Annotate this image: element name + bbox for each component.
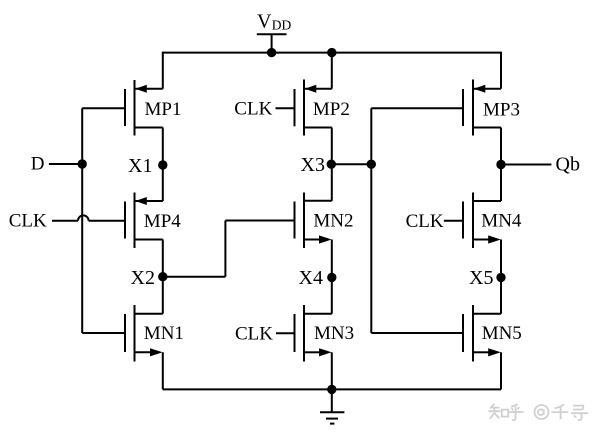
svg-text:MP4: MP4 [144,211,181,232]
svg-text:X2: X2 [131,267,155,289]
junction X3 right [367,160,376,169]
svg-text:MN4: MN4 [481,211,522,232]
transistor MN1 [82,305,163,362]
transistor MP2 [295,80,332,136]
wire rail to MP2 source [331,52,333,89]
wire rail to MP3 source [500,52,502,89]
svg-text:MP3: MP3 [483,100,520,121]
svg-text:X1: X1 [128,155,152,177]
node X5 [496,273,505,282]
ground [320,389,344,423]
svg-text:Qb: Qb [556,154,580,176]
wire CLK to MP2 gate [276,107,295,109]
svg-text:CLK: CLK [406,211,444,232]
transistor MN2 [295,193,332,249]
wire Qb output [501,164,551,166]
svg-text:X3: X3 [301,154,325,176]
wire D vertical (gates of MP1, MN1) [81,108,83,333]
input D wire [49,163,82,165]
wire X3 horizontal [331,163,371,165]
wire MN1 source to ground rail [162,352,164,389]
VDD label [257,11,292,33]
svg-text:CLK: CLK [235,324,273,345]
svg-text:X5: X5 [469,267,493,289]
wire MP3 drain to MN4 drain (node Qb segment) [500,128,502,202]
transistor MP3 [371,80,501,136]
wire MP1 drain to MP4 source (node X1 segment) [162,128,164,202]
svg-text:MN1: MN1 [144,323,184,344]
wire VDD rail [163,52,501,54]
wire X2 to MN2 gate [163,221,295,277]
wire CLK to MN4 gate [444,220,463,222]
svg-text:D: D [31,153,45,174]
wire MN2 source to MN3 drain (node X4 segment) [331,240,333,314]
wire X3 net to MN5 gate [371,332,463,334]
transistor MP1 [82,80,163,136]
VDD supply symbol [257,34,287,52]
junction ground rail [327,385,336,394]
node X2 [158,272,167,281]
transistor MN5 [463,305,501,362]
wire MN3 source to ground rail [331,352,333,389]
transistor MN3 [295,305,332,362]
svg-text:MN3: MN3 [314,323,354,344]
svg-text:V: V [257,11,272,33]
svg-text:X4: X4 [299,267,323,289]
svg-text:MP2: MP2 [313,99,350,120]
wire CLK to MP4 gate with hop over D line [52,215,125,220]
wire MN5 source to ground rail [500,352,502,389]
node Qb [496,160,505,169]
node X3 [327,160,336,169]
node X4 [327,273,336,282]
wire MN4 source to MN5 drain (node X5 segment) [500,240,502,314]
wire MP2 drain to X3 [331,128,333,165]
watermark zhihu [489,404,588,420]
junction D on vertical [78,159,87,168]
junction MP2 source on rail [327,48,336,57]
wire CLK to MN3 gate [276,332,295,334]
wire X3 net vertical (gates of MP3, MN5) [370,108,372,333]
transistor MN4 [463,193,501,249]
node X1 [158,160,167,169]
wire X3 down to MN2 drain [331,164,333,201]
wire rail to MP1 source [162,52,164,89]
svg-text:CLK: CLK [234,98,272,119]
transistor MP4 [125,193,163,249]
svg-text:MN2: MN2 [313,211,353,232]
svg-text:CLK: CLK [9,211,47,232]
svg-text:MP1: MP1 [145,99,182,120]
svg-text:DD: DD [272,17,292,32]
junction VDD stub on rail [267,48,276,57]
svg-text:MN5: MN5 [482,323,522,344]
wire MP4 drain to MN1 drain (node X2 segment) [162,240,164,314]
wire ground rail [163,388,501,390]
